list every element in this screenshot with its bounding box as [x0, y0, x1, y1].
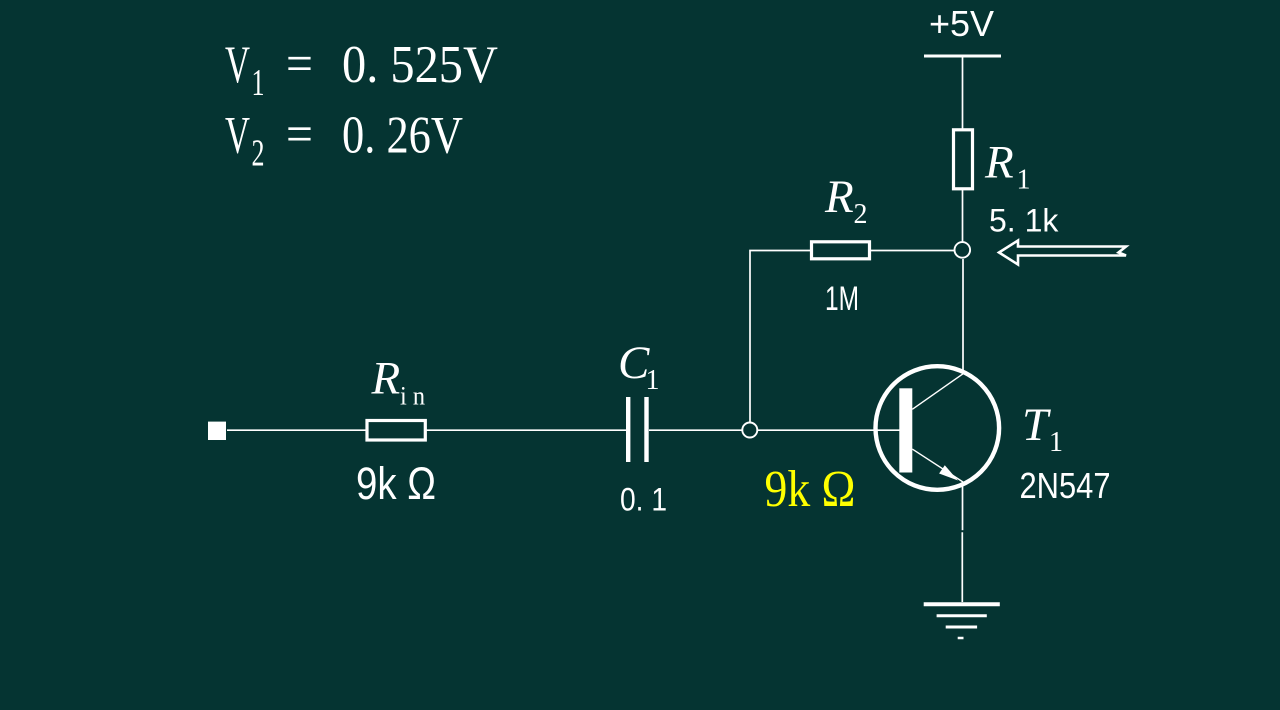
svg-text:1: 1	[1017, 165, 1031, 196]
svg-text:=: =	[286, 34, 313, 93]
svg-text:+5V: +5V	[929, 3, 994, 44]
node B junction circle	[742, 423, 757, 438]
svg-text:R: R	[984, 137, 1014, 189]
svg-text:1: 1	[252, 62, 265, 104]
svg-text:2: 2	[252, 133, 265, 175]
svg-text:V: V	[225, 35, 250, 94]
svg-text:R: R	[824, 171, 854, 223]
emitter stroke	[912, 449, 963, 482]
svg-text:1: 1	[646, 365, 660, 396]
svg-text:=: =	[286, 104, 313, 163]
wire	[961, 532, 963, 602]
ground	[924, 604, 1000, 638]
svg-text:9k Ω: 9k Ω	[356, 458, 436, 509]
wire: R1 to node A	[962, 189, 964, 242]
svg-text:0. 26V: 0. 26V	[342, 105, 463, 165]
svg-text:T: T	[1022, 399, 1051, 451]
wire: R2 left, down to node B	[750, 251, 812, 423]
svg-text:i n: i n	[400, 383, 425, 411]
wire: rail to R1	[962, 57, 964, 129]
base bar	[899, 388, 912, 472]
wire: node A to R2	[871, 250, 955, 252]
svg-text:2N547: 2N547	[1020, 467, 1111, 507]
pointer arrow at node A	[999, 241, 1126, 265]
label Rin	[371, 353, 426, 411]
transistor T1	[876, 366, 1000, 490]
label T1	[1022, 399, 1063, 458]
label C1	[618, 337, 660, 396]
wire: emitter down to ground	[962, 482, 964, 530]
label R2	[824, 171, 868, 230]
resistor R2	[812, 242, 870, 259]
wire: collector up to node A	[962, 259, 964, 374]
svg-text:2: 2	[854, 199, 868, 230]
svg-text:9k Ω: 9k Ω	[765, 459, 856, 517]
collector stroke	[912, 371, 966, 409]
node A junction circle	[955, 242, 971, 258]
svg-text:0. 1: 0. 1	[620, 483, 667, 518]
wire: terminal to Rin	[227, 429, 366, 431]
wire: C1 to node B	[649, 429, 742, 431]
svg-text:1: 1	[1049, 427, 1063, 458]
wire: node B to base	[758, 429, 901, 431]
svg-text:0. 525V: 0. 525V	[342, 35, 498, 93]
node V2 voltage annotation	[225, 104, 463, 175]
power rail bar	[924, 55, 1001, 58]
resistor Rin	[367, 421, 425, 441]
svg-text:1M: 1M	[825, 280, 859, 318]
emitter arrowhead	[939, 465, 958, 480]
body circle	[876, 366, 1000, 490]
node V1 voltage annotation	[225, 34, 498, 105]
input terminal square	[208, 422, 226, 440]
svg-text:V: V	[225, 105, 250, 164]
svg-text:5. 1k: 5. 1k	[989, 203, 1059, 239]
svg-text:R: R	[371, 353, 401, 405]
resistor R1	[954, 130, 973, 189]
capacitor C1	[628, 397, 646, 462]
wire: Rin to C1	[426, 429, 626, 431]
label R1	[984, 137, 1031, 196]
